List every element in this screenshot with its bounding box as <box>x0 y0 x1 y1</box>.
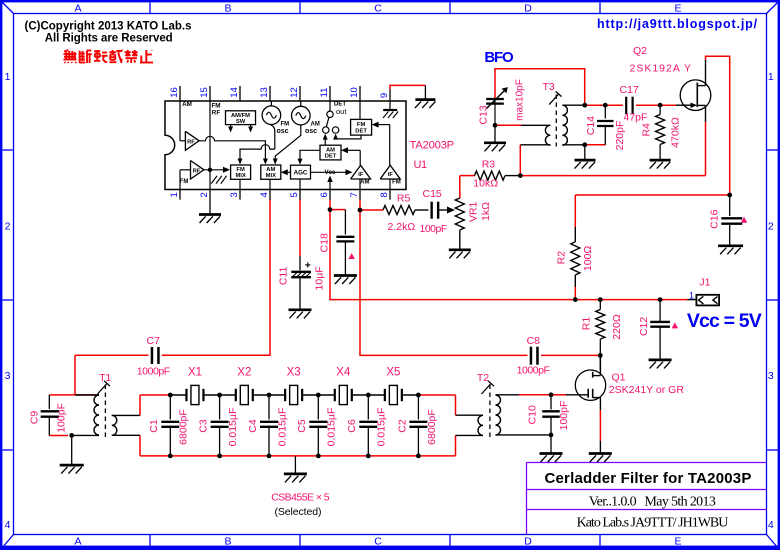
svg-text:E: E <box>674 2 681 14</box>
svg-text:R2: R2 <box>556 251 568 265</box>
svg-text:RF: RF <box>187 140 195 146</box>
svg-text:1: 1 <box>768 71 774 83</box>
svg-text:X3: X3 <box>287 367 301 379</box>
svg-text:U1: U1 <box>414 159 427 171</box>
svg-text:C16: C16 <box>709 209 721 228</box>
svg-text:TA2003P: TA2003P <box>410 140 454 152</box>
svg-text:B: B <box>224 2 231 14</box>
svg-text:1000pF: 1000pF <box>517 365 550 377</box>
svg-text:14: 14 <box>229 87 240 98</box>
svg-text:0.015µF: 0.015µF <box>326 408 338 447</box>
svg-text:Kato Lab.s JA9TTT/ JH1WBU: Kato Lab.s JA9TTT/ JH1WBU <box>577 515 729 530</box>
svg-text:IF: IF <box>358 172 364 178</box>
svg-text:1kΩ: 1kΩ <box>480 202 492 221</box>
svg-text:220Ω: 220Ω <box>611 314 623 340</box>
svg-text:All Rights are Reserved: All Rights are Reserved <box>45 33 173 45</box>
svg-text:+: + <box>305 259 311 271</box>
svg-text:T2: T2 <box>477 372 489 384</box>
svg-text:T3: T3 <box>543 81 555 93</box>
svg-text:2: 2 <box>768 221 774 233</box>
svg-text:R5: R5 <box>397 192 411 204</box>
svg-text:Ver..1.0.0 May 5th 2013: Ver..1.0.0 May 5th 2013 <box>589 494 716 509</box>
svg-text:C18: C18 <box>318 233 330 252</box>
svg-text:220pF: 220pF <box>614 121 626 151</box>
svg-text:10µF: 10µF <box>313 266 325 290</box>
svg-text:A: A <box>74 535 81 547</box>
svg-text:10: 10 <box>349 87 360 98</box>
svg-text:FM: FM <box>236 167 245 173</box>
svg-text:C8: C8 <box>527 335 541 347</box>
svg-text:D: D <box>524 2 532 14</box>
svg-text:AM: AM <box>326 147 335 153</box>
svg-text:AM: AM <box>311 122 320 128</box>
svg-text:out: out <box>336 107 347 116</box>
svg-text:BFO: BFO <box>484 49 514 66</box>
svg-text:C12: C12 <box>638 317 650 336</box>
svg-text:AM: AM <box>360 180 369 186</box>
svg-text:2: 2 <box>199 192 210 197</box>
svg-text:R3: R3 <box>482 158 496 170</box>
svg-text:C17: C17 <box>620 84 639 96</box>
svg-text:0.015µF: 0.015µF <box>227 408 239 447</box>
svg-text:AM: AM <box>266 167 275 173</box>
svg-text:0.015µF: 0.015µF <box>276 408 288 447</box>
svg-text:C5: C5 <box>296 419 308 433</box>
svg-text:4: 4 <box>768 519 774 531</box>
svg-text:13: 13 <box>259 87 270 98</box>
svg-text:C11: C11 <box>278 266 290 285</box>
svg-text:osc: osc <box>277 128 289 135</box>
svg-text:C9: C9 <box>28 411 40 425</box>
svg-text:100pF: 100pF <box>420 223 447 235</box>
svg-text:C14: C14 <box>585 116 597 135</box>
svg-text:R4: R4 <box>640 123 652 137</box>
svg-text:47pF: 47pF <box>624 112 648 124</box>
svg-text:470kΩ: 470kΩ <box>669 117 681 148</box>
svg-text:SW: SW <box>236 119 246 125</box>
svg-text:E: E <box>674 535 681 547</box>
svg-text:100pF: 100pF <box>558 401 570 431</box>
svg-text:100pF: 100pF <box>55 403 67 433</box>
svg-text:R1: R1 <box>580 317 592 331</box>
svg-text:Q2: Q2 <box>633 45 647 57</box>
svg-text:7: 7 <box>349 192 360 197</box>
svg-text:C4: C4 <box>247 419 259 433</box>
svg-text:2.2kΩ: 2.2kΩ <box>388 221 416 233</box>
svg-text:FM: FM <box>281 122 290 128</box>
svg-text:C: C <box>374 2 382 14</box>
svg-text:X1: X1 <box>188 367 202 379</box>
svg-text:5: 5 <box>289 192 300 197</box>
svg-text:6800pF: 6800pF <box>178 409 190 445</box>
svg-text:1: 1 <box>5 71 11 83</box>
svg-text:11: 11 <box>319 88 330 98</box>
svg-text:12: 12 <box>289 87 300 98</box>
svg-text:AGC: AGC <box>294 170 308 177</box>
svg-text:FM: FM <box>392 180 401 186</box>
svg-text:3: 3 <box>229 192 240 197</box>
svg-text:X5: X5 <box>386 367 400 379</box>
svg-text:4: 4 <box>5 519 11 531</box>
svg-text:D: D <box>524 535 532 547</box>
svg-text:J1: J1 <box>699 276 710 288</box>
svg-text:Vcc: Vcc <box>324 169 336 176</box>
svg-text:T1: T1 <box>99 372 111 384</box>
svg-text:1000pF: 1000pF <box>137 365 170 377</box>
svg-text:4: 4 <box>259 192 270 197</box>
svg-text:VR1: VR1 <box>467 201 479 222</box>
svg-text:100Ω: 100Ω <box>582 246 594 272</box>
svg-text:FM: FM <box>357 122 366 128</box>
svg-text:FM: FM <box>211 103 220 110</box>
svg-text:2: 2 <box>5 221 11 233</box>
svg-text:C6: C6 <box>346 419 358 433</box>
svg-text:X4: X4 <box>336 367 351 379</box>
svg-text:Cerladder Filter for TA2003P: Cerladder Filter for TA2003P <box>544 470 751 487</box>
svg-text:15: 15 <box>199 87 210 98</box>
svg-text:(Selected): (Selected) <box>275 506 322 518</box>
svg-text:(C)Copyright 2013 KATO Lab.s: (C)Copyright 2013 KATO Lab.s <box>25 20 192 32</box>
svg-text:Vcc = 5V: Vcc = 5V <box>687 310 762 332</box>
svg-text:MIX: MIX <box>235 173 245 179</box>
svg-text:RF: RF <box>193 169 201 175</box>
svg-text:http://ja9ttt.blogspot.jp/: http://ja9ttt.blogspot.jp/ <box>597 17 758 31</box>
svg-text:CSB455E × 5: CSB455E × 5 <box>271 491 330 503</box>
svg-text:X2: X2 <box>237 367 251 379</box>
svg-text:C3: C3 <box>197 419 209 433</box>
svg-text:osc: osc <box>305 128 317 135</box>
svg-text:2SK241Y or GR: 2SK241Y or GR <box>609 384 685 396</box>
svg-text:6: 6 <box>319 192 330 197</box>
svg-text:B: B <box>224 535 231 547</box>
svg-text:16: 16 <box>169 87 180 98</box>
svg-text:10kΩ: 10kΩ <box>473 178 498 190</box>
svg-text:DET: DET <box>355 128 367 134</box>
svg-text:C10: C10 <box>526 405 538 424</box>
svg-text:9: 9 <box>379 93 390 98</box>
svg-text:Q1: Q1 <box>612 372 626 384</box>
svg-text:1: 1 <box>689 291 694 301</box>
svg-text:C13: C13 <box>477 105 489 124</box>
svg-text:C1: C1 <box>148 419 160 433</box>
svg-text:C15: C15 <box>423 188 442 200</box>
svg-text:RF: RF <box>212 110 221 117</box>
svg-text:C: C <box>374 535 382 547</box>
svg-text:C7: C7 <box>147 335 161 347</box>
svg-text:3: 3 <box>5 370 11 382</box>
svg-text:DET: DET <box>325 154 337 160</box>
svg-text:max10pF: max10pF <box>515 79 526 121</box>
svg-text:0.015µF: 0.015µF <box>376 408 388 447</box>
svg-text:A: A <box>74 2 81 14</box>
svg-text:1: 1 <box>169 192 180 197</box>
svg-text:3: 3 <box>768 370 774 382</box>
svg-text:8: 8 <box>379 192 390 197</box>
svg-text:C2: C2 <box>396 419 408 433</box>
svg-text:6800pF: 6800pF <box>426 409 438 445</box>
svg-text:AM: AM <box>182 101 192 108</box>
svg-text:MIX: MIX <box>266 173 276 179</box>
svg-text:2SK192A Y: 2SK192A Y <box>630 63 693 75</box>
svg-text:IF: IF <box>388 172 394 178</box>
svg-text:FM: FM <box>180 179 189 185</box>
